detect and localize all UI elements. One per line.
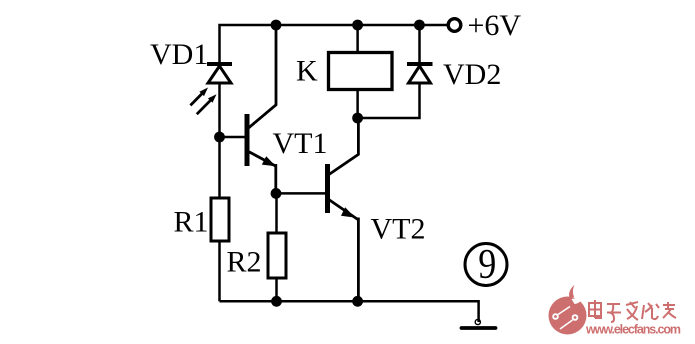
light arrow 1 of VD1 [190, 88, 208, 106]
svg-text:VT2: VT2 [371, 213, 426, 246]
resistor R2 [268, 233, 286, 278]
svg-text:VD2: VD2 [443, 58, 501, 91]
wire node B down to R2 [275, 193, 278, 233]
photodiode VD1 [207, 64, 232, 83]
wire R1 bottom to bottom rail [218, 241, 221, 301]
node top rail VD2 [414, 20, 425, 31]
light arrow 2 of VD1 [197, 94, 217, 114]
wire R2 bottom to bottom rail [275, 278, 278, 301]
diode VD2 [407, 25, 433, 83]
wire node C to VD2 bottom [358, 83, 420, 118]
svg-text:VD1: VD1 [150, 38, 208, 71]
circled 9 figure number [465, 242, 507, 288]
node top rail K [352, 20, 363, 31]
node bottom rail R2 [271, 296, 282, 307]
terminal +6V circle [448, 19, 461, 32]
node A (VD1 / VT1 base / R1) [214, 132, 225, 143]
node top rail VT1 collector [271, 20, 282, 31]
relay K box [329, 53, 393, 90]
transistor VT2 [328, 118, 359, 301]
resistor R1 [211, 198, 229, 241]
watermark logo circle [549, 285, 587, 335]
wire node B to VT2 base [276, 192, 326, 195]
svg-text:VT1: VT1 [273, 127, 328, 160]
svg-text:R2: R2 [227, 246, 262, 279]
svg-text:9: 9 [478, 242, 496, 288]
svg-text:+6V: +6V [468, 9, 522, 42]
node C (K bottom / VD2 anode / VT2 collector) [352, 113, 363, 124]
bottom rail wire [220, 301, 479, 322]
top rail wire [220, 25, 448, 62]
wire VD1 anode down to node A [218, 83, 221, 198]
ground [462, 319, 496, 328]
svg-text:www.elecfans.com: www.elecfans.com [585, 323, 681, 337]
watermark text dianzifashaoyou (pseudo CJK strokes) [589, 300, 676, 322]
node bottom rail VT2 emitter [352, 296, 363, 307]
transistor VT1 [247, 25, 276, 193]
wire node A to VT1 base [220, 136, 246, 139]
svg-text:K: K [296, 55, 318, 88]
node B (VT1 emitter / R2 / VT2 base) [271, 188, 282, 199]
wire K bottom to node C [356, 90, 359, 119]
svg-text:R1: R1 [174, 206, 209, 239]
wire rail to K top [356, 25, 359, 53]
